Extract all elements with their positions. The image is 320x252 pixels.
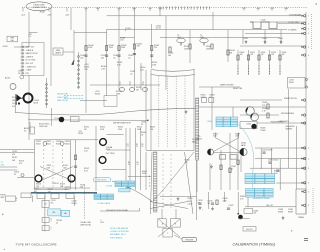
svg-text:DLY'D TRIG.: DLY'D TRIG. [26, 60, 37, 62]
svg-text:GRAT: GRAT [56, 49, 61, 52]
svg-text:R1065: R1065 [262, 102, 267, 104]
svg-text:+GATE A: +GATE A [26, 49, 34, 52]
svg-text:DELAY LINE: DELAY LINE [57, 93, 68, 96]
svg-text:L1046: L1046 [278, 38, 283, 40]
svg-text:R1091: R1091 [250, 52, 255, 54]
svg-text:C1063: C1063 [207, 121, 212, 123]
svg-text:TIMING: TIMING [298, 217, 305, 219]
svg-text:SAWTOOTH B: SAWTOOTH B [26, 52, 39, 55]
svg-text:C4: C4 [128, 164, 130, 166]
svg-text:20: 20 [18, 73, 20, 75]
svg-text:REPLACED: REPLACED [97, 179, 107, 182]
svg-text:1: 1 [16, 200, 17, 202]
svg-text:C1025 47: C1025 47 [52, 183, 59, 185]
svg-text:5: 5 [308, 191, 309, 193]
svg-text:-12.2: -12.2 [21, 14, 25, 16]
svg-text:4: 4 [21, 56, 22, 58]
svg-text:LAMPS: LAMPS [55, 52, 62, 55]
svg-text:B1010: B1010 [5, 78, 10, 80]
svg-text:EXT.: EXT. [26, 73, 30, 75]
svg-text:CALIBRATION (TIMING): CALIBRATION (TIMING) [233, 243, 276, 247]
svg-text:3: 3 [21, 53, 22, 55]
svg-text:6: 6 [21, 63, 22, 65]
svg-text:TO SWP: TO SWP [54, 118, 60, 120]
svg-text:R1019: R1019 [80, 184, 85, 186]
svg-text:6AU8: 6AU8 [192, 140, 197, 143]
svg-text:.01: .01 [113, 57, 116, 59]
svg-text:R1021: R1021 [36, 143, 41, 145]
svg-text:TP: TP [200, 35, 202, 37]
svg-text:+: + [3, 247, 5, 251]
svg-text:L1045: L1045 [262, 38, 267, 40]
svg-text:CONNECTORS: CONNECTORS [32, 7, 46, 9]
svg-text:R1024: R1024 [63, 165, 68, 167]
svg-text:CALIBRATOR SIGNAL: CALIBRATOR SIGNAL [252, 197, 269, 200]
svg-text:SIG OUT: SIG OUT [246, 229, 253, 231]
svg-text:TRIGGER: TRIGGER [185, 240, 194, 242]
svg-text:R1011: R1011 [12, 97, 17, 99]
svg-text:1047: 1047 [177, 37, 181, 39]
svg-text:6: 6 [308, 205, 309, 207]
svg-text:(SEE NOTE): (SEE NOTE) [57, 100, 68, 102]
svg-text:470: 470 [12, 106, 15, 108]
svg-text:SWEEP): SWEEP) [286, 128, 293, 130]
svg-text:6DJ8: 6DJ8 [106, 149, 110, 151]
svg-text:R1093: R1093 [271, 52, 276, 54]
svg-text:4: 4 [51, 221, 52, 223]
svg-text:TO CRT GRID: TO CRT GRID [288, 22, 300, 24]
svg-text:TO GATES: TO GATES [288, 28, 297, 31]
svg-text:2.2M: 2.2M [152, 64, 156, 66]
svg-text:CH2: CH2 [1, 164, 5, 166]
svg-text:470: 470 [12, 154, 15, 156]
svg-text:TYPE 547 OSCILLOSCOPE: TYPE 547 OSCILLOSCOPE [15, 242, 56, 246]
svg-text:6DJ8: 6DJ8 [34, 102, 38, 104]
svg-text:FROM VERT SIG: FROM VERT SIG [271, 121, 285, 123]
svg-text:C1072 R1072: C1072 R1072 [268, 160, 278, 162]
svg-text:R5: R5 [137, 162, 139, 164]
svg-text:R1088: R1088 [278, 211, 283, 213]
svg-text:SWEEP TRIGGER: SWEEP TRIGGER [220, 85, 234, 87]
svg-text:7: 7 [21, 66, 22, 68]
svg-text:SWP. OUT: SWP. OUT [26, 47, 36, 49]
svg-text:- GATE: - GATE [26, 69, 33, 72]
svg-text:1: 1 [21, 47, 22, 49]
svg-text:.001: .001 [80, 57, 84, 59]
svg-text:C1012: C1012 [12, 151, 17, 153]
svg-text:2: 2 [308, 158, 309, 160]
svg-text:L1040 168FT: L1040 168FT [57, 97, 69, 99]
svg-text:TRIGGER PICKOFF SIGNAL: TRIGGER PICKOFF SIGNAL [106, 209, 128, 212]
svg-text:C1: C1 [127, 146, 129, 148]
svg-text:20: 20 [14, 174, 16, 176]
svg-text:+100V: +100V [2, 46, 8, 48]
svg-text:SEE MAINT. SECT.: SEE MAINT. SECT. [110, 233, 127, 236]
svg-text:R1012: R1012 [12, 157, 17, 159]
svg-text:NOTE: LINE MAY BE: NOTE: LINE MAY BE [110, 227, 129, 230]
svg-text:R1029: R1029 [188, 198, 193, 200]
svg-text:R1: R1 [127, 144, 129, 146]
svg-text:5: 5 [51, 229, 52, 231]
svg-text:470: 470 [254, 213, 257, 215]
svg-text:1: 1 [308, 16, 309, 18]
svg-text:6AU8: 6AU8 [241, 144, 246, 147]
svg-text:C1011: C1011 [12, 103, 17, 105]
svg-text:2: 2 [308, 23, 309, 25]
svg-text:TO HORIZ AMP: TO HORIZ AMP [289, 13, 302, 16]
svg-text:C1029: C1029 [188, 204, 193, 206]
svg-text:22: 22 [24, 130, 26, 132]
svg-text:(DLY TRIG): (DLY TRIG) [106, 153, 115, 155]
svg-text:001: 001 [51, 202, 54, 204]
svg-text:6: 6 [308, 55, 309, 57]
svg-text:C3: C3 [141, 146, 143, 148]
svg-text:FOR DETAILS.: FOR DETAILS. [110, 236, 123, 239]
svg-text:T-COAX: T-COAX [106, 184, 113, 187]
svg-text:20: 20 [142, 84, 144, 86]
svg-text:R1092: R1092 [261, 52, 266, 54]
svg-text:C1062: C1062 [201, 97, 206, 99]
svg-text:C1: C1 [119, 82, 121, 84]
svg-text:20: 20 [129, 84, 131, 86]
svg-text:R1060: R1060 [235, 133, 240, 135]
svg-text:C2: C2 [129, 82, 131, 84]
svg-text:L-COAX CABLE: L-COAX CABLE [97, 202, 111, 205]
svg-text:8: 8 [125, 30, 126, 32]
svg-text:+225: +225 [78, 131, 82, 133]
svg-text:R1028: R1028 [78, 133, 83, 135]
svg-text:470: 470 [185, 162, 188, 164]
svg-text:001: 001 [65, 189, 68, 191]
svg-text:(SEE NOTE): (SEE NOTE) [81, 224, 92, 226]
svg-text:150: 150 [154, 47, 157, 49]
svg-text:SWP BLANKING: SWP BLANKING [281, 112, 295, 115]
svg-text:T1060: T1060 [246, 124, 251, 126]
svg-text:C3: C3 [142, 82, 144, 84]
svg-text:50: 50 [56, 222, 58, 224]
svg-text:R4: R4 [128, 162, 130, 164]
svg-text:2: 2 [21, 50, 22, 52]
svg-text:R1058: R1058 [213, 133, 218, 135]
svg-text:R1094: R1094 [282, 52, 287, 54]
svg-text:100: 100 [34, 191, 37, 193]
svg-text:1048: 1048 [200, 37, 204, 39]
svg-text:L1044: L1044 [243, 38, 248, 40]
svg-text:B: B [16, 198, 17, 200]
svg-text:5-25: 5-25 [140, 69, 144, 71]
svg-text:L1040: L1040 [261, 19, 266, 21]
svg-text:01: 01 [231, 168, 233, 170]
svg-text:.001: .001 [101, 57, 105, 59]
svg-text:R1090: R1090 [240, 52, 245, 54]
svg-text:20: 20 [119, 84, 121, 86]
svg-text:R1045: R1045 [95, 93, 100, 95]
svg-text:R1089: R1089 [288, 211, 293, 213]
svg-text:CAL: CAL [11, 39, 14, 42]
svg-text:R1016: R1016 [72, 203, 77, 205]
svg-text:.01: .01 [130, 73, 133, 75]
svg-text:R1022: R1022 [46, 143, 51, 145]
svg-text:+ GATE OUT: + GATE OUT [26, 65, 38, 68]
svg-text:9: 9 [21, 73, 22, 75]
svg-text:4: 4 [308, 183, 309, 185]
svg-text:4: 4 [308, 33, 309, 35]
svg-text:470: 470 [198, 202, 201, 204]
svg-text:.01: .01 [128, 57, 131, 59]
svg-text:R1023: R1023 [56, 143, 61, 145]
svg-text:C5: C5 [137, 164, 139, 166]
svg-text:E: E [149, 186, 150, 188]
svg-text:100: 100 [80, 186, 83, 188]
svg-text:100: 100 [36, 186, 39, 188]
svg-text:C1068: C1068 [260, 130, 265, 132]
svg-text:30: 30 [141, 124, 143, 126]
svg-text:5: 5 [21, 60, 22, 62]
svg-text:1: 1 [308, 148, 309, 150]
svg-text:+225: +225 [101, 68, 105, 70]
svg-text:100K 100K: 100K 100K [39, 126, 48, 128]
svg-text:C1070 R1070: C1070 R1070 [262, 150, 272, 152]
svg-text:R1024: R1024 [65, 143, 70, 145]
svg-text:COILED OR ROUTED: COILED OR ROUTED [110, 231, 130, 233]
svg-text:R1023: R1023 [47, 165, 52, 167]
svg-text:1.5: 1.5 [29, 36, 32, 38]
svg-text:+225: +225 [65, 14, 69, 16]
svg-text:3: 3 [308, 28, 309, 30]
svg-text:TP: TP [177, 35, 179, 37]
svg-text:SEL: SEL [52, 212, 55, 214]
svg-text:R3: R3 [141, 144, 143, 146]
svg-text:C2: C2 [136, 146, 138, 148]
svg-text:R1066: R1066 [262, 108, 267, 110]
svg-text:1015: 1015 [100, 222, 104, 224]
svg-text:R1087: R1087 [254, 211, 259, 213]
svg-text:SWEEP TRIG IN: SWEEP TRIG IN [284, 98, 297, 100]
svg-text:5: 5 [308, 47, 309, 49]
svg-text:3: 3 [308, 168, 309, 170]
svg-text:+GATE B: +GATE B [26, 55, 34, 58]
svg-text:+100: +100 [47, 14, 51, 16]
svg-text:SIG. OUT: SIG. OUT [26, 63, 35, 65]
svg-text:82: 82 [210, 97, 212, 99]
svg-text:R1047: R1047 [289, 82, 294, 84]
svg-text:J1040: J1040 [39, 12, 44, 14]
svg-text:B: B [149, 176, 150, 178]
svg-text:470: 470 [19, 163, 22, 165]
svg-text:4.5-25: 4.5-25 [156, 28, 161, 30]
svg-text:100: 100 [60, 186, 63, 188]
svg-text:R2: R2 [136, 144, 138, 146]
svg-text:470: 470 [48, 191, 51, 193]
svg-text:C1021: C1021 [229, 205, 234, 207]
